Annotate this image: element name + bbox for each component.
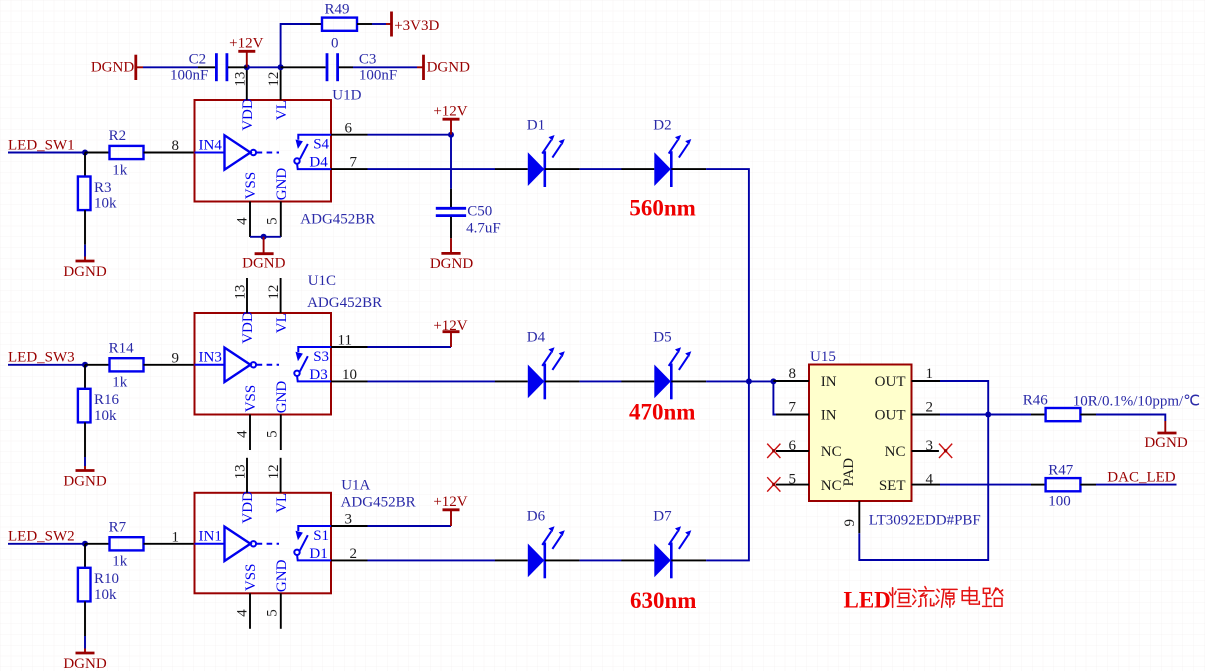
svg-text:DGND: DGND (1144, 435, 1187, 451)
svg-text:4: 4 (926, 471, 934, 487)
wire R7 to pin 1 (144, 543, 195, 545)
wire OUT1 to OUT2 to PAD loop (859, 381, 988, 560)
pin 3 (331, 525, 368, 527)
svg-text:R49: R49 (325, 2, 350, 18)
svg-text:D1: D1 (527, 117, 545, 133)
svg-text:1: 1 (926, 366, 934, 382)
wire OUT2 to node (940, 414, 1031, 416)
svg-text:560nm: 560nm (629, 196, 695, 221)
pin 13 (246, 278, 248, 313)
wire D6 to D7 (580, 559, 622, 561)
pin 6 (331, 134, 368, 136)
svg-text:GND: GND (274, 559, 290, 592)
svg-text:10R/0.1%/10ppm/℃: 10R/0.1%/10ppm/℃ (1073, 393, 1200, 409)
pin 10 (331, 380, 368, 382)
svg-text:DAC_LED: DAC_LED (1107, 470, 1175, 486)
wire R49 to +3V3D (372, 23, 386, 25)
svg-text:630nm: 630nm (630, 588, 696, 613)
svg-text:R14: R14 (109, 340, 135, 356)
wire R46 to DGND (1096, 415, 1165, 422)
pin 13 (U1D VDD) (246, 67, 248, 100)
svg-text:1k: 1k (112, 162, 128, 178)
inverter inside U1A (195, 527, 280, 561)
node junction LED bus (746, 378, 752, 384)
inverter inside U1D (195, 135, 280, 169)
capacitor C3 (281, 51, 398, 83)
svg-text:6: 6 (789, 438, 797, 454)
pin 7 (331, 168, 368, 170)
ground DGND right of C3 (417, 55, 470, 80)
ADG452 section U1D body (195, 100, 332, 202)
power +12V (229, 36, 263, 68)
pin 11 (331, 346, 368, 348)
ground DGND below R3 (63, 257, 106, 281)
wire net LED_SW3 (8, 364, 85, 366)
svg-text:R10: R10 (94, 571, 119, 587)
wire C3 to DGND (353, 66, 417, 68)
svg-text:OUT: OUT (875, 374, 906, 390)
svg-text:9: 9 (172, 350, 180, 366)
svg-text:+12V: +12V (433, 494, 467, 510)
pin 2 (331, 559, 368, 561)
svg-text:R7: R7 (109, 519, 127, 535)
pin 6 (NC) (776, 450, 809, 452)
wire net LED_SW2 (8, 543, 85, 545)
resistor R3 (78, 153, 117, 212)
ground DGND left of C2 (91, 55, 143, 80)
svg-text:10k: 10k (94, 408, 117, 424)
pin 4 (249, 593, 251, 629)
svg-text:D4: D4 (309, 155, 328, 171)
svg-text:IN: IN (821, 408, 837, 424)
svg-text:GND: GND (274, 168, 290, 201)
svg-text:100nF: 100nF (359, 67, 397, 83)
wire VSS-GND join (250, 236, 281, 238)
resistor R46 (1023, 393, 1200, 422)
resistor R14 (109, 340, 144, 390)
resistor R16 (78, 365, 120, 424)
pin 2 (OUT) (912, 414, 941, 416)
wire R2 to pin 8 (144, 152, 195, 154)
resistor R10 (78, 544, 119, 603)
pin 13 (246, 458, 248, 493)
wire junction to R7 (85, 543, 110, 545)
svg-text:DGND: DGND (430, 256, 473, 272)
ground DGND below chip (242, 237, 285, 272)
svg-text:U1D: U1D (332, 88, 361, 104)
capacitor C50 (436, 189, 501, 239)
svg-text:1: 1 (172, 529, 180, 545)
switch S1 blade (294, 526, 331, 560)
power +3V3D (386, 12, 439, 37)
node junction LED_SW2/R (82, 541, 88, 547)
pin 4 (SET) (912, 484, 941, 486)
svg-text:VSS: VSS (243, 385, 259, 413)
svg-text:D6: D6 (527, 509, 546, 525)
LED D4 (495, 330, 580, 400)
node junction +12V/S4 (448, 132, 454, 138)
svg-text:VSS: VSS (243, 564, 259, 592)
regulator U15 body (809, 365, 912, 502)
ground DGND right (1144, 421, 1187, 451)
svg-text:9: 9 (842, 519, 858, 527)
pin 12 (280, 458, 282, 493)
no-ERC mark pin 3 (939, 444, 952, 458)
ground DGND below C50 (430, 238, 473, 272)
wire net LED_SW1 (8, 152, 85, 154)
ground DGND below R16 (63, 466, 106, 490)
svg-text:6: 6 (345, 120, 353, 136)
svg-text:+3V3D: +3V3D (394, 18, 439, 34)
wire +12V down to C50 (450, 135, 452, 189)
svg-text:8: 8 (172, 138, 180, 154)
svg-text:LED_SW2: LED_SW2 (8, 529, 75, 545)
svg-text:LED_SW1: LED_SW1 (8, 137, 75, 153)
svg-text:VL: VL (274, 100, 290, 120)
pin 9 (PAD) (858, 501, 860, 533)
node junction VSS/GND (261, 234, 267, 240)
node junction LED_SW1/R (82, 150, 88, 156)
svg-text:100nF: 100nF (170, 67, 208, 83)
svg-text:ADG452BR: ADG452BR (307, 295, 382, 311)
svg-text:R47: R47 (1048, 462, 1074, 478)
svg-text:U1A: U1A (341, 478, 370, 494)
svg-text:4: 4 (235, 430, 251, 438)
pin 5 (280, 415, 282, 451)
wire D4 to D5 (580, 380, 622, 382)
pin 5 (280, 593, 282, 629)
svg-text:D2: D2 (653, 117, 671, 133)
pin 1 (OUT) (912, 380, 941, 382)
wire D5 to bus junction (706, 380, 773, 382)
wire D2 to bus (706, 169, 749, 381)
svg-text:12: 12 (266, 464, 282, 479)
svg-text:10k: 10k (94, 196, 117, 212)
svg-text:D3: D3 (309, 367, 327, 383)
svg-text:IN4: IN4 (199, 137, 223, 153)
pin 7 (IN) (776, 414, 809, 416)
svg-text:11: 11 (338, 333, 352, 349)
pin 12 (U1D VL) (280, 67, 282, 100)
wire junction to R14 (85, 364, 110, 366)
no-ERC mark pin 6 (767, 444, 780, 458)
wire R3 to ground (84, 210, 86, 245)
svg-text:OUT: OUT (875, 408, 906, 424)
svg-text:4: 4 (235, 609, 251, 617)
LED D7 (621, 509, 706, 579)
svg-text:D4: D4 (527, 330, 546, 346)
svg-text:S3: S3 (313, 349, 329, 365)
svg-text:VL: VL (274, 493, 290, 513)
wire pin3 to +12V (368, 525, 452, 527)
wire net DAC_LED (1096, 484, 1177, 486)
pin 4 (249, 415, 251, 451)
pin 4 (249, 202, 251, 238)
svg-text:PAD: PAD (841, 458, 857, 487)
LED D2 (621, 117, 706, 187)
wire junction to R2 (85, 152, 110, 154)
svg-text:R16: R16 (94, 392, 120, 408)
node junction VL (278, 64, 284, 70)
title CJK 恒流源电路 drawn as strokes (889, 587, 1002, 608)
svg-text:U15: U15 (810, 349, 836, 365)
svg-text:VDD: VDD (240, 98, 256, 131)
svg-text:4: 4 (235, 217, 251, 225)
svg-text:DGND: DGND (91, 60, 134, 76)
node junction OUT (985, 412, 991, 418)
svg-text:IN: IN (821, 374, 837, 390)
power +12V (433, 104, 467, 135)
svg-text:GND: GND (274, 381, 290, 414)
wire VL node up to R49 (281, 24, 310, 67)
svg-text:VL: VL (274, 313, 290, 333)
svg-text:7: 7 (789, 399, 797, 415)
svg-text:SET: SET (879, 478, 906, 494)
svg-text:+12V: +12V (433, 318, 467, 334)
wire R14 to pin 9 (144, 364, 195, 366)
pin 5 (NC) (776, 484, 809, 486)
LED D6 (495, 509, 580, 579)
svg-text:DGND: DGND (242, 256, 285, 272)
svg-text:NC: NC (821, 478, 842, 494)
wire D1 to D2 (580, 168, 622, 170)
svg-text:LT3092EDD#PBF: LT3092EDD#PBF (869, 513, 981, 529)
svg-text:13: 13 (233, 285, 249, 300)
node junction U15 IN (770, 378, 776, 384)
switch S4 blade (294, 135, 331, 169)
wire D7 up to bus (706, 381, 749, 560)
wire pin6 to +12V (368, 134, 452, 136)
LED D5 (621, 330, 706, 400)
pin 8 (IN) (773, 380, 809, 382)
svg-text:IN3: IN3 (199, 350, 222, 366)
node junction VDD (244, 64, 250, 70)
svg-text:470nm: 470nm (629, 399, 695, 424)
wire pin2 row (368, 559, 496, 561)
wire SET to R47 (940, 484, 1031, 486)
svg-text:12: 12 (266, 285, 282, 300)
svg-text:2: 2 (350, 546, 358, 562)
svg-text:NC: NC (885, 444, 906, 460)
svg-text:VDD: VDD (240, 491, 256, 524)
svg-text:C3: C3 (359, 51, 377, 67)
inverter inside U1C (195, 348, 280, 382)
svg-text:7: 7 (350, 155, 358, 171)
svg-text:D1: D1 (309, 546, 327, 562)
svg-text:8: 8 (789, 366, 797, 382)
svg-text:LED: LED (844, 588, 891, 613)
svg-text:U1C: U1C (308, 273, 336, 289)
wire to U15 pin7 (773, 381, 776, 414)
wire pin7 row (368, 168, 496, 170)
svg-text:VSS: VSS (243, 172, 259, 200)
wire R16 to ground (84, 422, 86, 457)
svg-text:ADG452BR: ADG452BR (300, 212, 375, 228)
svg-text:C2: C2 (189, 51, 207, 67)
svg-text:1k: 1k (112, 375, 128, 391)
svg-text:DGND: DGND (63, 264, 106, 280)
svg-text:S4: S4 (313, 137, 329, 153)
svg-text:10k: 10k (94, 587, 117, 603)
svg-text:3: 3 (345, 512, 353, 528)
wire pin10 row (368, 380, 496, 382)
power +12V (row3) (433, 494, 467, 526)
svg-text:D7: D7 (653, 509, 672, 525)
svg-text:+12V: +12V (229, 36, 263, 52)
svg-text:IN1: IN1 (199, 529, 222, 545)
svg-text:13: 13 (233, 464, 249, 479)
svg-text:LED_SW3: LED_SW3 (8, 350, 75, 366)
wire +12V node (247, 66, 281, 68)
svg-text:5: 5 (789, 471, 797, 487)
svg-text:DGND: DGND (63, 656, 106, 671)
svg-text:R2: R2 (109, 128, 127, 144)
svg-text:5: 5 (264, 430, 280, 438)
ADG452 section U1A body (195, 493, 332, 594)
svg-text:3: 3 (926, 438, 934, 454)
resistor R49 (310, 2, 372, 52)
svg-text:S1: S1 (313, 528, 329, 544)
ADG452 section U1C body (195, 313, 332, 415)
resistor R47 (1031, 462, 1096, 509)
svg-text:10: 10 (342, 367, 357, 383)
svg-text:100: 100 (1048, 493, 1071, 509)
svg-text:2: 2 (926, 399, 934, 415)
svg-text:5: 5 (264, 217, 280, 225)
wire pin11 to +12V (368, 346, 452, 348)
svg-text:DGND: DGND (63, 474, 106, 490)
svg-text:0: 0 (331, 36, 339, 52)
svg-text:R3: R3 (94, 180, 112, 196)
no-ERC mark pin 5 (767, 477, 780, 491)
pin 3 (NC) (912, 450, 939, 452)
LED D1 (495, 117, 580, 187)
svg-text:1k: 1k (112, 554, 128, 570)
pin 12 (280, 278, 282, 313)
svg-text:NC: NC (821, 444, 842, 460)
wire DGND to C2 (143, 66, 198, 68)
capacitor C2 (170, 51, 247, 83)
svg-text:D5: D5 (653, 330, 671, 346)
svg-text:C50: C50 (467, 203, 492, 219)
svg-text:5: 5 (264, 609, 280, 617)
svg-text:R46: R46 (1023, 393, 1049, 409)
power +12V (row2) (433, 318, 467, 347)
wire R10 to ground (84, 601, 86, 636)
ground DGND below R10 (63, 649, 106, 671)
node junction LED_SW3/R (82, 362, 88, 368)
resistor R2 (109, 128, 144, 178)
svg-text:VDD: VDD (240, 311, 256, 344)
svg-text:ADG452BR: ADG452BR (341, 495, 416, 511)
pin 5 (280, 202, 282, 238)
switch S3 blade (294, 347, 331, 381)
resistor R7 (109, 519, 144, 569)
svg-text:4.7uF: 4.7uF (466, 220, 501, 236)
svg-text:DGND: DGND (427, 60, 470, 76)
svg-text:+12V: +12V (433, 104, 467, 120)
